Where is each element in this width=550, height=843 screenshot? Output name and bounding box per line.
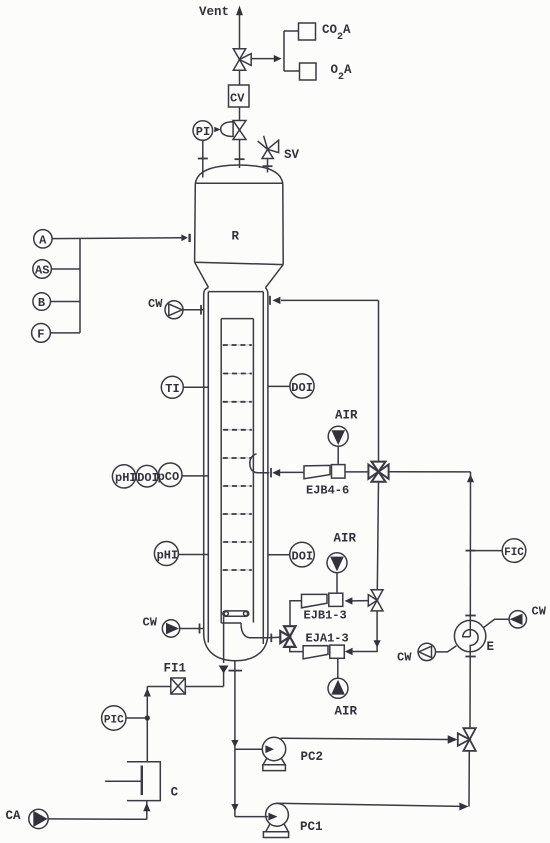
wire lower exit to valve bbox=[268, 636, 280, 639]
wire PC2 discharge bbox=[281, 738, 449, 739]
three-way valve mid bbox=[368, 590, 383, 611]
flange tick EJB4-6 exit bbox=[270, 468, 272, 477]
pipe to EJB4-6 (J-curve) bbox=[250, 454, 269, 473]
column inner wall left bbox=[207, 292, 209, 643]
wire CW lower to E bbox=[436, 646, 457, 652]
ejector EJB1-3 bbox=[302, 593, 343, 608]
svg-text:EJA1-3: EJA1-3 bbox=[306, 632, 349, 646]
box CV bbox=[229, 85, 250, 107]
safety valve SV bbox=[258, 136, 279, 173]
svg-text:CW: CW bbox=[532, 605, 547, 619]
flange tick E top bbox=[465, 615, 475, 617]
AIR supply bottom bbox=[328, 678, 348, 698]
wire EJB4-6 to four-way valve bbox=[345, 471, 369, 473]
instrument PI bbox=[193, 121, 213, 141]
wire valve left to EJA1-3 bbox=[290, 647, 303, 652]
svg-text:C: C bbox=[171, 786, 179, 800]
pump CW upper bbox=[165, 301, 183, 319]
reactor R weld line bbox=[195, 182, 282, 184]
pump CW lower bbox=[162, 620, 179, 637]
column outer wall right bbox=[265, 288, 268, 635]
arrow down to PC1 bbox=[231, 804, 238, 812]
wire valve V1 to CV bbox=[239, 70, 241, 85]
instrument F bbox=[32, 324, 51, 343]
svg-text:DOI: DOI bbox=[137, 471, 159, 485]
instrument DOI left bbox=[136, 465, 158, 487]
pump PC1 bbox=[266, 803, 289, 826]
draft tube bbox=[221, 319, 253, 623]
vessel C side inlet bbox=[105, 780, 142, 782]
svg-text:EJB4-6: EJB4-6 bbox=[306, 484, 349, 498]
arrow gas return bbox=[273, 297, 281, 304]
svg-text:PC1: PC1 bbox=[300, 820, 323, 834]
arrow up at FI1 corner bbox=[144, 688, 151, 697]
wire four-way valve up to column bbox=[378, 300, 380, 462]
wire pHI lower to column bbox=[178, 554, 208, 556]
svg-text:CA: CA bbox=[6, 809, 22, 823]
svg-text:AIR: AIR bbox=[335, 705, 358, 719]
arrow PC1 suction bbox=[268, 813, 277, 821]
flange tick gas return bbox=[269, 296, 271, 305]
wire CA to C bbox=[48, 818, 147, 820]
svg-text:CV: CV bbox=[230, 92, 245, 106]
wire CW lower to column bbox=[180, 628, 204, 630]
svg-text:O2A: O2A bbox=[331, 63, 353, 83]
pipe lower exit curve bbox=[241, 623, 268, 638]
svg-text:PC2: PC2 bbox=[301, 750, 324, 764]
check valve sparger feed bbox=[219, 666, 229, 674]
three-way valve left bbox=[280, 626, 295, 647]
box O2 analyzer bbox=[300, 63, 317, 80]
arrow feed into reactor bbox=[181, 234, 187, 241]
column outer wall left bbox=[204, 287, 209, 635]
pump CW right upper bbox=[509, 611, 526, 628]
control valve V2 bbox=[233, 121, 246, 140]
wire corner to EJA1-3 bbox=[352, 646, 377, 652]
pump CA bbox=[29, 809, 48, 828]
drain line column bottom bbox=[234, 661, 236, 817]
wire FI1 left bbox=[147, 686, 171, 688]
wire vent line bbox=[239, 14, 241, 49]
column inner wall right bbox=[262, 292, 264, 644]
arrow to analyzers bbox=[274, 55, 282, 62]
reactor R cone bbox=[195, 262, 284, 288]
instrument FIC bbox=[502, 539, 526, 563]
arrow into valve PC2 bbox=[448, 735, 458, 743]
svg-text:AS: AS bbox=[35, 263, 49, 277]
svg-text:PIC: PIC bbox=[104, 714, 124, 726]
svg-text:DOI: DOI bbox=[292, 550, 314, 564]
wire feed line to reactor bbox=[52, 237, 182, 240]
wire CV to valve V2 bbox=[239, 107, 241, 121]
three-way valve V1 bbox=[233, 49, 251, 71]
ejector EJB4-6 bbox=[304, 465, 345, 479]
svg-text:CO2A: CO2A bbox=[322, 23, 351, 43]
wire pCO to column bbox=[182, 475, 208, 477]
svg-text:E: E bbox=[487, 640, 495, 654]
wire to EJB4-6 mouth bbox=[280, 471, 304, 473]
wire CW upper to column bbox=[183, 309, 204, 311]
arrow down to EJA1-3 line bbox=[374, 640, 381, 647]
flange tick FIC junction bbox=[466, 550, 476, 552]
wire PI sensing line bbox=[202, 140, 204, 177]
nozzle arrow EJB4-6 bbox=[272, 469, 280, 477]
flange tick reactor inlet bbox=[188, 234, 190, 242]
svg-text:PI: PI bbox=[196, 125, 210, 139]
wire analyzer bracket bbox=[284, 31, 300, 71]
arrow up into C bbox=[143, 803, 150, 812]
wire DOI upper right bbox=[268, 385, 290, 387]
arrow PI to actuator bbox=[214, 127, 220, 133]
vessel C bbox=[127, 762, 160, 801]
svg-text:A: A bbox=[39, 233, 47, 247]
instrument TI bbox=[161, 376, 183, 398]
heat exchanger E bbox=[454, 620, 485, 651]
vent arrow bbox=[236, 6, 243, 16]
svg-text:AIR: AIR bbox=[334, 532, 357, 546]
wire FI1 to column bbox=[185, 686, 223, 688]
three-way valve right bbox=[458, 728, 476, 751]
wire DOI lower right bbox=[268, 554, 290, 556]
arrow down to PC2 bbox=[231, 740, 238, 748]
wire right vertical line upper bbox=[469, 472, 471, 637]
dashed level lines bbox=[222, 345, 253, 570]
svg-text:pHI: pHI bbox=[115, 471, 137, 485]
arrow PC1 discharge bbox=[459, 803, 468, 811]
flange tick E bottom bbox=[465, 656, 475, 658]
wire PC2 suction bbox=[235, 748, 263, 750]
flange tick CW lower bbox=[199, 624, 201, 634]
svg-text:R: R bbox=[232, 230, 240, 244]
instrument PIC bbox=[102, 706, 126, 730]
ejector EJA1-3 bbox=[303, 645, 344, 659]
wire AIR to EJB4-6 bbox=[337, 446, 339, 464]
wire E to CW upper bbox=[483, 619, 509, 627]
wire TI to column bbox=[183, 386, 208, 388]
instrument DOI upper right bbox=[290, 374, 314, 398]
sparger feed line bbox=[223, 616, 225, 663]
wire feed manifold bbox=[50, 239, 80, 333]
wire three-way valve down bbox=[376, 611, 378, 643]
svg-text:AIR: AIR bbox=[335, 409, 358, 423]
wire valve V2 to reactor bbox=[239, 140, 241, 169]
column bottom cap bbox=[204, 634, 268, 661]
wire four-way valve down bbox=[377, 482, 378, 590]
arrow into EJB1-3 bbox=[345, 597, 353, 604]
wire AIR to EJB1-3 bbox=[336, 573, 338, 594]
svg-text:TI: TI bbox=[165, 382, 179, 396]
wire valve to EJB1-3 bbox=[352, 600, 368, 602]
flange tick PI line bbox=[198, 158, 208, 160]
instrument pHI lower bbox=[154, 542, 178, 566]
actuator diaphragm bbox=[221, 122, 233, 137]
four-way valve bbox=[368, 462, 388, 482]
junction dot PIC bbox=[145, 715, 150, 720]
instrument B bbox=[33, 293, 51, 311]
svg-text:B: B bbox=[38, 296, 45, 310]
flange tick drain bbox=[229, 670, 243, 672]
instrument pCO bbox=[158, 463, 182, 487]
wire right vertical line lower bbox=[469, 657, 470, 807]
box CO2 analyzer bbox=[299, 23, 316, 40]
column top plate bbox=[208, 291, 263, 293]
sparger bbox=[223, 611, 249, 616]
svg-text:CW: CW bbox=[148, 297, 163, 311]
svg-text:CW: CW bbox=[397, 651, 412, 665]
svg-text:Vent: Vent bbox=[199, 5, 229, 19]
svg-text:pHI: pHI bbox=[157, 549, 179, 563]
wire EJB1-3 suction bbox=[290, 601, 302, 626]
arrow up into corner bbox=[467, 474, 474, 482]
svg-text:SV: SV bbox=[284, 148, 300, 162]
wire FIC branch bbox=[470, 550, 502, 552]
wire PC1 suction bbox=[235, 816, 268, 818]
wire PC1 discharge bbox=[276, 803, 460, 806]
instrument pHI upper bbox=[112, 465, 135, 488]
reactor R dome bbox=[195, 165, 282, 183]
svg-text:pCO: pCO bbox=[158, 470, 180, 484]
wire gas return into column bbox=[281, 299, 379, 301]
svg-text:CW: CW bbox=[143, 616, 158, 630]
flange tick CW upper bbox=[200, 305, 202, 315]
flange tick lower exit bbox=[270, 634, 272, 643]
AIR supply top bbox=[328, 426, 348, 446]
svg-text:DOI: DOI bbox=[291, 381, 313, 395]
wire C bottom bbox=[146, 801, 148, 820]
instrument DOI lower right bbox=[290, 542, 315, 567]
svg-text:FIC: FIC bbox=[504, 547, 524, 559]
filter FI1 bbox=[171, 678, 186, 694]
wire PIC to junction bbox=[126, 717, 146, 719]
flange tick vent line bbox=[235, 158, 245, 160]
svg-text:FI1: FI1 bbox=[164, 662, 187, 676]
svg-text:F: F bbox=[37, 327, 44, 341]
arrow PC2 suction bbox=[265, 745, 274, 753]
vessel C dip tube bbox=[141, 766, 143, 796]
reactor R body bbox=[195, 183, 284, 264]
pump PC2 bbox=[262, 737, 285, 760]
wire four-way valve to right line bbox=[388, 471, 470, 473]
wire valve to analyzers bbox=[251, 58, 274, 60]
svg-text:EJB1-3: EJB1-3 bbox=[304, 609, 347, 623]
arrow into EJA1-3 bbox=[345, 648, 353, 655]
AIR supply middle bbox=[327, 553, 347, 573]
instrument AS bbox=[33, 260, 52, 279]
wire riser to C bbox=[146, 687, 148, 762]
wire AIR lower to EJA1-3 bbox=[337, 658, 339, 678]
pump CW right lower bbox=[418, 643, 435, 660]
instrument A bbox=[34, 230, 52, 248]
